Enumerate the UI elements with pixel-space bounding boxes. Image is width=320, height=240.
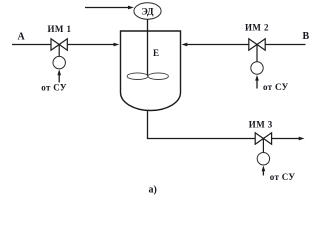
svg-text:А: А <box>18 32 26 43</box>
wire: valve ИМ3 actuator stem <box>262 139 264 153</box>
control arrow ИМ2 (from СУ) <box>255 75 259 89</box>
svg-text:от СУ: от СУ <box>263 82 289 92</box>
control arrow ИМ3 (from СУ) <box>262 165 266 175</box>
actuator circle ИМ2 <box>251 62 263 74</box>
svg-text:Е: Е <box>153 48 159 58</box>
stirrer blades <box>127 73 168 80</box>
svg-text:от СУ: от СУ <box>41 83 67 93</box>
valve ИМ2 body <box>249 39 265 50</box>
wire: outlet line from tank bottom <box>148 111 305 140</box>
motor ЭД <box>134 3 161 19</box>
svg-text:а): а) <box>149 185 157 196</box>
wire: top feed line to motor <box>85 6 134 10</box>
svg-text:от СУ: от СУ <box>270 172 296 182</box>
wire: valve ИМ1 actuator stem <box>58 45 60 57</box>
wire: inlet A line <box>12 43 119 47</box>
wire: valve ИМ2 actuator stem <box>256 45 258 62</box>
actuator circle ИМ3 <box>257 153 269 165</box>
svg-text:ЭД: ЭД <box>141 7 154 17</box>
wire: inlet B line <box>182 43 306 47</box>
svg-text:ИМ 3: ИМ 3 <box>249 120 273 130</box>
valve ИМ3 body <box>255 133 271 144</box>
control arrow ИМ1 (from СУ) <box>57 69 61 82</box>
svg-text:ИМ 2: ИМ 2 <box>245 23 269 33</box>
svg-text:ИМ 1: ИМ 1 <box>48 24 72 34</box>
svg-text:В: В <box>303 31 310 42</box>
tank Е <box>121 31 181 111</box>
wire: stirrer shaft <box>147 19 149 76</box>
valve ИМ1 body <box>51 39 67 50</box>
actuator circle ИМ1 <box>53 56 65 68</box>
